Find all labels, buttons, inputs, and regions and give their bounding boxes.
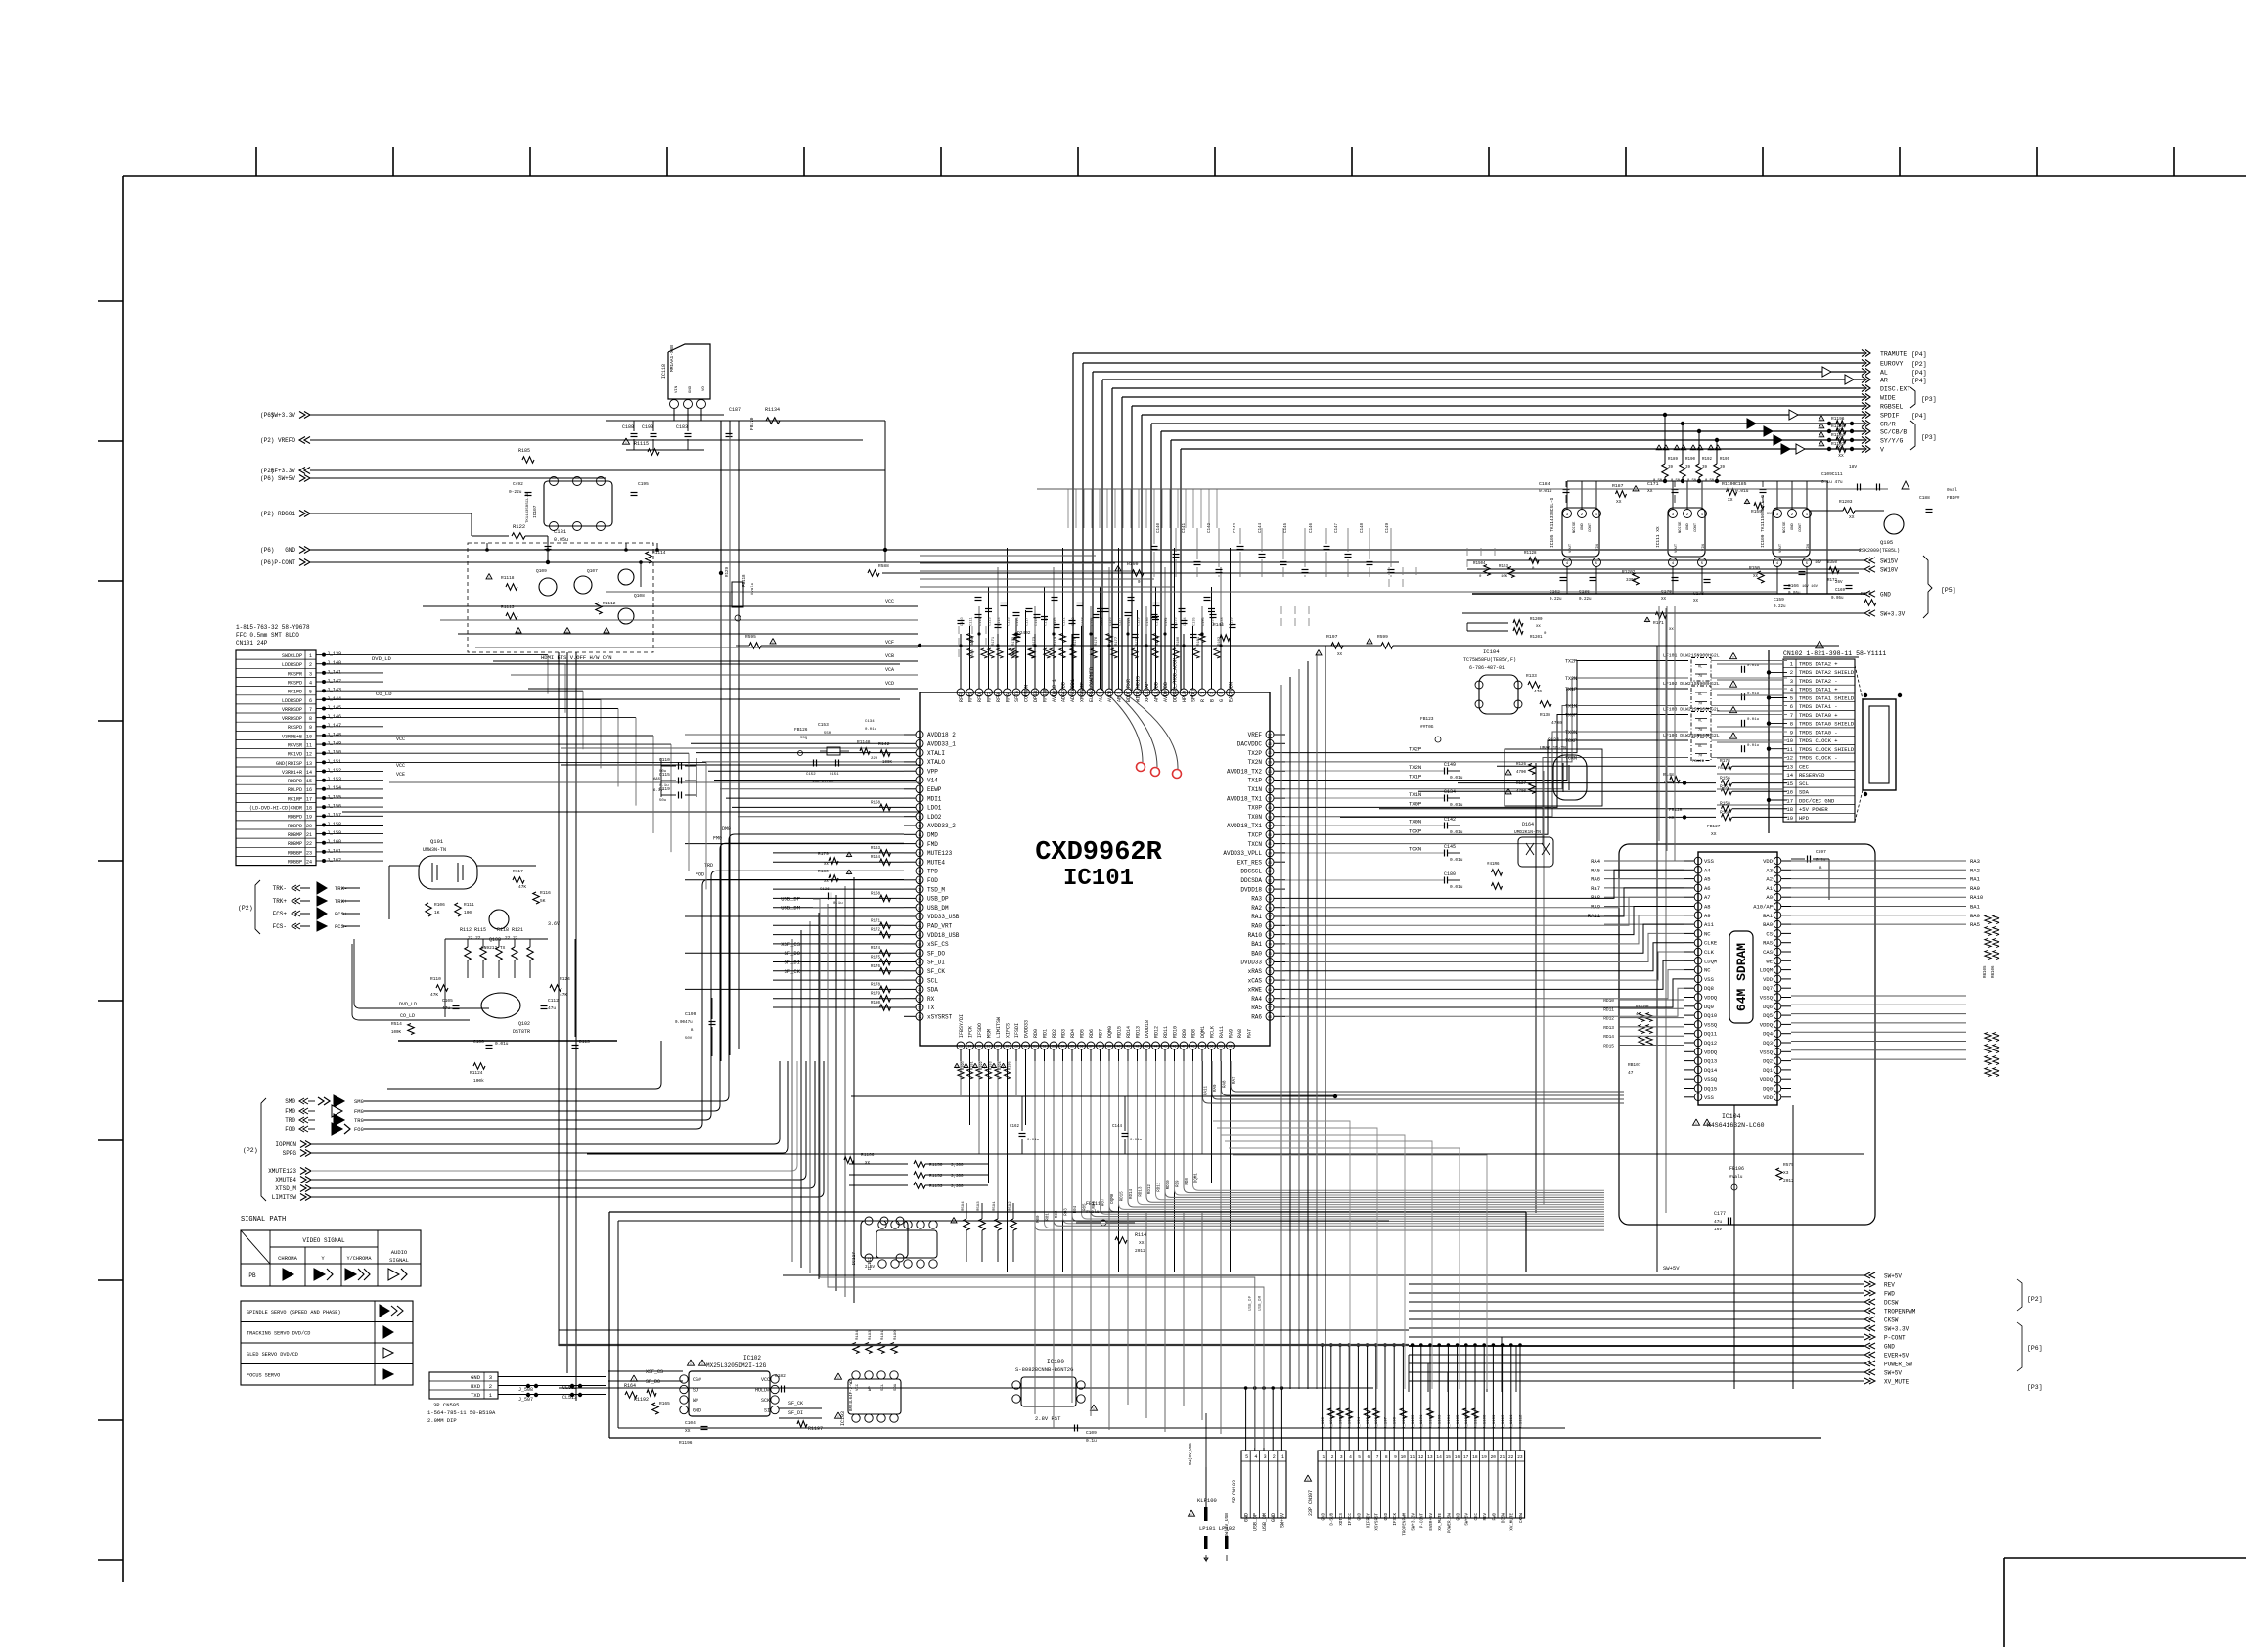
svg-text:DQ10: DQ10 bbox=[1704, 1012, 1717, 1019]
svg-text:SIGNAL: SIGNAL bbox=[389, 1257, 409, 1264]
svg-text:SF_CK: SF_CK bbox=[927, 968, 945, 975]
svg-text:RDBBP: RDBBP bbox=[288, 860, 302, 866]
svg-text:21: 21 bbox=[1500, 1454, 1505, 1460]
svg-text:!: ! bbox=[1658, 446, 1661, 452]
svg-text:R112 R115: R112 R115 bbox=[460, 927, 486, 933]
svg-text:FB118: FB118 bbox=[743, 574, 747, 587]
svg-text:VCA: VCA bbox=[885, 667, 894, 673]
svg-text:XX: XX bbox=[1728, 497, 1733, 503]
svg-text:FB127: FB127 bbox=[1707, 824, 1721, 829]
svg-text:!: ! bbox=[1307, 1477, 1310, 1483]
svg-text:RA1: RA1 bbox=[1970, 876, 1981, 883]
svg-text:R06: R06 bbox=[1093, 1201, 1097, 1209]
svg-text:RD12: RD12 bbox=[1154, 1026, 1160, 1038]
svg-text:19: 19 bbox=[1786, 815, 1793, 822]
svg-text:##T0G: ##T0G bbox=[1420, 724, 1434, 730]
svg-text:R1100: R1100 bbox=[1722, 481, 1736, 487]
svg-text:1-815-763-32 58-Y9678: 1-815-763-32 58-Y9678 bbox=[236, 624, 310, 631]
svg-text:EURAY/XAPMED: EURAY/XAPMED bbox=[1089, 667, 1095, 702]
svg-text:RA0: RA0 bbox=[1251, 923, 1262, 930]
svg-text:VDDQ: VDDQ bbox=[1760, 1021, 1774, 1028]
svg-text:26V: 26V bbox=[1835, 581, 1843, 585]
svg-text:R07: R07 bbox=[1102, 1198, 1106, 1206]
svg-text:CS: CS bbox=[1766, 930, 1773, 937]
svg-text:76: 76 bbox=[1268, 924, 1272, 928]
svg-text:89: 89 bbox=[1268, 806, 1272, 810]
svg-text:MX25L3205DM2I-12G: MX25L3205DM2I-12G bbox=[706, 1362, 767, 1369]
svg-text:VCB: VCB bbox=[885, 653, 894, 659]
svg-text:GND: GND bbox=[1458, 1513, 1461, 1521]
svg-text:31: 31 bbox=[1033, 1045, 1037, 1049]
svg-text:J_154: J_154 bbox=[327, 785, 341, 791]
svg-text:R1201: R1201 bbox=[1530, 636, 1543, 640]
svg-text:C133: C133 bbox=[1175, 617, 1179, 626]
svg-text:SPFG: SPFG bbox=[283, 1150, 297, 1157]
svg-text:TCKN: TCKN bbox=[1565, 756, 1577, 762]
svg-text:18: 18 bbox=[1786, 806, 1793, 813]
svg-text:SCK: SCK bbox=[761, 1398, 770, 1404]
svg-text:REV: REV bbox=[1484, 1513, 1488, 1521]
svg-text:DDC/CEC GND: DDC/CEC GND bbox=[1799, 797, 1835, 804]
svg-text:AVDD18_TX1: AVDD18_TX1 bbox=[1227, 823, 1262, 829]
svg-text:XX: XX bbox=[1536, 625, 1541, 629]
svg-text:R1200: R1200 bbox=[1530, 618, 1543, 622]
svg-text:47K: 47K bbox=[518, 884, 526, 890]
svg-text:R05: R05 bbox=[1084, 1203, 1088, 1211]
svg-text:2012: 2012 bbox=[1135, 1248, 1145, 1254]
svg-text:VDDQ: VDDQ bbox=[1760, 1076, 1774, 1083]
svg-text:XX: XX bbox=[824, 863, 829, 867]
svg-text:RA9: RA9 bbox=[1214, 1084, 1218, 1092]
svg-text:0.01u: 0.01u bbox=[1027, 1139, 1040, 1142]
svg-text:2SK2009(TE85L): 2SK2009(TE85L) bbox=[1859, 548, 1900, 554]
svg-text:RA10: RA10 bbox=[1248, 932, 1263, 939]
svg-text:26: 26 bbox=[987, 1045, 991, 1049]
svg-text:MUTE123: MUTE123 bbox=[927, 850, 953, 857]
svg-text:G: G bbox=[1219, 699, 1225, 702]
svg-text:TROPENPWM: TROPENPWM bbox=[1403, 1513, 1407, 1536]
svg-text:J_1110: J_1110 bbox=[1502, 1414, 1505, 1429]
svg-text:J_160: J_160 bbox=[327, 839, 341, 845]
svg-text:476: 476 bbox=[1534, 689, 1542, 694]
svg-text:50: 50 bbox=[1210, 1045, 1214, 1049]
svg-text:D2402: D2402 bbox=[1017, 630, 1031, 636]
svg-text:RA5: RA5 bbox=[1591, 867, 1600, 873]
svg-text:RD12: RD12 bbox=[1148, 1184, 1152, 1195]
svg-text:!: ! bbox=[837, 1375, 840, 1381]
svg-text:RA2: RA2 bbox=[1970, 867, 1980, 873]
svg-text:18V: 18V bbox=[1849, 464, 1857, 469]
svg-text:6.3V: 6.3V bbox=[653, 789, 663, 793]
svg-text:C135: C135 bbox=[1193, 617, 1197, 626]
svg-text:ADACVDD: ADACVDD bbox=[1061, 682, 1067, 702]
svg-text:39: 39 bbox=[1668, 466, 1674, 469]
svg-text:TX1N: TX1N bbox=[1565, 704, 1577, 710]
svg-text:RD10: RD10 bbox=[1173, 1026, 1179, 1038]
svg-text:XX: XX bbox=[1693, 600, 1699, 603]
svg-text:69: 69 bbox=[1268, 988, 1272, 992]
svg-text:RDBBP: RDBBP bbox=[288, 850, 302, 856]
svg-text:DQ3: DQ3 bbox=[1763, 1040, 1773, 1047]
svg-text:REV: REV bbox=[1884, 1282, 1895, 1289]
svg-text:(P6): (P6) bbox=[260, 559, 274, 566]
svg-text:R114: R114 bbox=[1135, 1232, 1146, 1238]
svg-text:RFINP: RFINP bbox=[1043, 688, 1049, 702]
svg-text:Ra7: Ra7 bbox=[1591, 885, 1600, 892]
svg-text:A8: A8 bbox=[1704, 904, 1711, 911]
svg-text:C195: C195 bbox=[638, 481, 649, 487]
svg-text:J_149: J_149 bbox=[327, 741, 341, 747]
svg-text:!: ! bbox=[1732, 709, 1735, 715]
svg-text:TRACKING SERVO DVD/CD: TRACKING SERVO DVD/CD bbox=[247, 1331, 310, 1337]
svg-text:SCL: SCL bbox=[1799, 781, 1809, 787]
svg-text:RD2: RD2 bbox=[1052, 1029, 1057, 1038]
svg-text:83: 83 bbox=[1268, 861, 1272, 865]
svg-text:!: ! bbox=[974, 1064, 977, 1070]
svg-text:DVDD18: DVDD18 bbox=[1145, 1020, 1150, 1038]
svg-text:CO_LD: CO_LD bbox=[376, 691, 392, 697]
svg-text:SW+5V: SW+5V bbox=[278, 475, 295, 482]
svg-text:IFSCK: IFSCK bbox=[1394, 1513, 1398, 1526]
svg-text:20: 20 bbox=[306, 824, 312, 829]
svg-text:R00: R00 bbox=[1037, 1215, 1041, 1223]
svg-text:21: 21 bbox=[918, 915, 921, 919]
svg-text:100: 100 bbox=[464, 910, 472, 915]
svg-text:RD9: RD9 bbox=[1182, 1029, 1188, 1038]
svg-text:NC: NC bbox=[1704, 930, 1711, 937]
svg-text:87: 87 bbox=[1268, 825, 1272, 828]
svg-text:0.01u: 0.01u bbox=[1450, 857, 1463, 863]
svg-text:!: ! bbox=[1635, 487, 1638, 493]
svg-text:!: ! bbox=[1002, 1064, 1005, 1070]
svg-text:R156: R156 bbox=[1720, 776, 1730, 781]
svg-text:NC: NC bbox=[1704, 967, 1711, 974]
svg-text:TRAMUTE: TRAMUTE bbox=[1880, 351, 1907, 358]
svg-text:24: 24 bbox=[306, 860, 312, 866]
svg-text:0val: 0val bbox=[1947, 487, 1957, 493]
svg-text:TMDS CLOCK SHIELD: TMDS CLOCK SHIELD bbox=[1799, 746, 1855, 753]
svg-text:HPLD: HPLD bbox=[1182, 691, 1188, 702]
svg-text:6-786-487-01: 6-786-487-01 bbox=[1469, 665, 1505, 671]
svg-text:20: 20 bbox=[918, 906, 921, 910]
svg-text:FOD: FOD bbox=[927, 877, 938, 884]
svg-text:IFSCC: IFSCC bbox=[1349, 1513, 1353, 1526]
svg-text:100K: 100K bbox=[882, 761, 893, 765]
svg-text:50u: 50u bbox=[659, 799, 667, 803]
svg-text:FCS-: FCS- bbox=[335, 923, 347, 930]
svg-text:VDD18_USB: VDD18_USB bbox=[927, 932, 960, 939]
svg-text:41: 41 bbox=[1126, 1045, 1130, 1049]
svg-text:R178: R178 bbox=[1720, 758, 1730, 764]
svg-text:2: 2 bbox=[1790, 669, 1793, 676]
svg-text:VCF: VCF bbox=[885, 640, 894, 646]
svg-text:TRK-: TRK- bbox=[273, 885, 287, 892]
svg-text:16V 16V: 16V 16V bbox=[1802, 585, 1819, 589]
svg-text:R179: R179 bbox=[818, 851, 829, 857]
svg-text:TX2P: TX2P bbox=[1248, 750, 1263, 757]
svg-text:7#: 7# bbox=[1698, 729, 1702, 733]
svg-text:R172: R172 bbox=[871, 929, 881, 933]
svg-text:LDDRSDP: LDDRSDP bbox=[282, 698, 302, 704]
svg-text:67: 67 bbox=[1268, 1006, 1272, 1010]
svg-text:TX1P: TX1P bbox=[1565, 687, 1577, 692]
svg-text:SDA: SDA bbox=[1799, 789, 1810, 796]
svg-text:RD10: RD10 bbox=[1167, 1180, 1171, 1190]
svg-text:XX: XX bbox=[824, 880, 829, 884]
svg-text:31: 31 bbox=[918, 1006, 921, 1010]
svg-text:NOISE: NOISE bbox=[1783, 521, 1787, 533]
svg-text:0.01u: 0.01u bbox=[1747, 744, 1760, 748]
svg-text:C190: C190 bbox=[642, 424, 653, 430]
svg-text:95: 95 bbox=[1210, 692, 1214, 695]
svg-text:TMDS DATA1 SHIELD: TMDS DATA1 SHIELD bbox=[1799, 695, 1855, 702]
svg-text:XX: XX bbox=[1711, 831, 1717, 837]
svg-text:VIN: VIN bbox=[675, 385, 679, 393]
svg-text:!: ! bbox=[1507, 771, 1510, 777]
svg-text:Cs92: Cs92 bbox=[513, 481, 523, 487]
svg-text:GND: GND bbox=[1323, 1513, 1326, 1521]
svg-text:!: ! bbox=[1683, 446, 1685, 452]
svg-text:P-CONT: P-CONT bbox=[1884, 1335, 1906, 1342]
svg-text:USB_DM: USB_DM bbox=[927, 905, 949, 912]
svg-text:C114: C114 bbox=[998, 617, 1002, 626]
svg-text:92: 92 bbox=[1268, 779, 1272, 782]
svg-text:RB106: RB106 bbox=[1992, 965, 1996, 978]
svg-text:TCXN: TCXN bbox=[1409, 846, 1421, 853]
svg-text:C126: C126 bbox=[1109, 617, 1113, 626]
svg-text:CONT: CONT bbox=[1589, 522, 1593, 532]
svg-text:(LD-DVD-HI-CD)CNDR: (LD-DVD-HI-CD)CNDR bbox=[249, 806, 302, 812]
svg-text:R514: R514 bbox=[391, 1021, 402, 1027]
svg-text:DQM0: DQM0 bbox=[1111, 1193, 1115, 1204]
svg-text:TX1P: TX1P bbox=[1409, 774, 1421, 781]
svg-text:V3RD1+R: V3RD1+R bbox=[282, 770, 302, 776]
svg-text:J_147: J_147 bbox=[327, 723, 341, 729]
svg-text:VDDQ: VDDQ bbox=[1704, 1049, 1718, 1055]
svg-text:J_157: J_157 bbox=[327, 813, 341, 819]
svg-text:R172: R172 bbox=[1012, 636, 1016, 646]
svg-text:XMUTE123: XMUTE123 bbox=[268, 1168, 296, 1175]
svg-text:SF_DI: SF_DI bbox=[788, 1410, 803, 1416]
svg-text:19: 19 bbox=[918, 897, 921, 901]
svg-text:18: 18 bbox=[306, 806, 312, 812]
svg-text:VSSQ: VSSQ bbox=[1760, 995, 1774, 1002]
svg-text:19: 19 bbox=[306, 815, 312, 821]
svg-text:RC1PD: RC1PD bbox=[288, 690, 302, 695]
svg-text:VSSQ: VSSQ bbox=[1704, 1021, 1718, 1028]
svg-text:VDD: VDD bbox=[1763, 976, 1774, 983]
svg-text:[P4]: [P4] bbox=[1911, 413, 1927, 420]
svg-text:CEC: CEC bbox=[1475, 1513, 1479, 1521]
svg-text:19: 19 bbox=[1481, 1454, 1487, 1460]
svg-text:RCVSR: RCVSR bbox=[288, 743, 302, 749]
svg-text:R179: R179 bbox=[871, 993, 881, 997]
svg-text:RFA: RFA bbox=[1006, 693, 1011, 702]
svg-text:A5: A5 bbox=[1704, 876, 1711, 883]
svg-text:TX0N: TX0N bbox=[1565, 730, 1577, 736]
svg-text:R129: R129 bbox=[726, 566, 730, 577]
svg-text:R138: R138 bbox=[1540, 712, 1550, 718]
svg-text:96: 96 bbox=[1219, 692, 1223, 695]
svg-text:R148: R148 bbox=[1663, 772, 1674, 778]
svg-text:11: 11 bbox=[1410, 1454, 1415, 1460]
svg-text:R174: R174 bbox=[1054, 636, 1057, 646]
svg-text:26: 26 bbox=[918, 960, 921, 964]
svg-text:TX0N: TX0N bbox=[1248, 814, 1263, 821]
svg-text:1K: 1K bbox=[434, 910, 440, 915]
svg-text:XX: XX bbox=[1661, 598, 1667, 602]
svg-text:A&5: A&5 bbox=[653, 778, 661, 781]
svg-text:TMDS DATA2 +: TMDS DATA2 + bbox=[1799, 661, 1838, 668]
svg-text:NOISE: NOISE bbox=[1679, 521, 1683, 533]
svg-text:4: 4 bbox=[919, 761, 921, 765]
svg-text:C180: C180 bbox=[1444, 871, 1456, 877]
svg-text:AVDD18_TX1: AVDD18_TX1 bbox=[1227, 795, 1262, 802]
svg-text:TROPENPWM: TROPENPWM bbox=[1884, 1309, 1916, 1316]
svg-text:RC1VD: RC1VD bbox=[288, 752, 302, 758]
svg-text:0.0047u: 0.0047u bbox=[675, 1021, 693, 1025]
svg-text:IFBSY/DI: IFBSY/DI bbox=[959, 1014, 965, 1038]
svg-text:C119: C119 bbox=[1045, 617, 1049, 626]
svg-text:VCC: VCC bbox=[885, 599, 894, 604]
svg-text:R117: R117 bbox=[513, 869, 523, 874]
svg-text:VSS: VSS bbox=[1704, 1094, 1715, 1101]
svg-text:#L: #L bbox=[1698, 745, 1702, 749]
svg-text:5: 5 bbox=[919, 770, 921, 774]
svg-text:!: ! bbox=[1665, 446, 1668, 452]
svg-text:14: 14 bbox=[1436, 1454, 1442, 1460]
svg-text:J_508: J_508 bbox=[518, 1387, 533, 1393]
svg-text:2012: 2012 bbox=[1783, 1178, 1794, 1183]
svg-text:SF_DO: SF_DO bbox=[646, 1379, 660, 1385]
svg-text:R594: R594 bbox=[962, 1201, 966, 1211]
svg-text:3.6V: 3.6V bbox=[548, 921, 560, 927]
svg-text:FB106: FB106 bbox=[1729, 1166, 1744, 1172]
svg-text:C127: C127 bbox=[1119, 617, 1123, 626]
svg-text:5: 5 bbox=[1358, 1454, 1361, 1460]
svg-text:GND(RDISP: GND(RDISP bbox=[276, 761, 302, 767]
svg-text:12: 12 bbox=[1418, 1454, 1424, 1460]
svg-text:R599: R599 bbox=[1377, 634, 1388, 640]
svg-text:VDD33_USB: VDD33_USB bbox=[927, 914, 960, 920]
svg-text:UMD2K1N-TN: UMD2K1N-TN bbox=[1514, 829, 1541, 835]
svg-text:C122: C122 bbox=[1072, 617, 1076, 626]
svg-text:R1193: R1193 bbox=[1831, 441, 1845, 447]
svg-text:7#: 7# bbox=[1698, 703, 1702, 707]
svg-text:DQ12: DQ12 bbox=[1704, 1040, 1717, 1047]
svg-text:8: 8 bbox=[309, 716, 312, 722]
svg-text:IC104: IC104 bbox=[1483, 648, 1500, 655]
svg-text:Q107: Q107 bbox=[587, 568, 598, 574]
svg-text:RA5: RA5 bbox=[1251, 1005, 1262, 1011]
svg-text:TX1N: TX1N bbox=[1409, 791, 1421, 798]
svg-text:C153: C153 bbox=[818, 722, 829, 728]
svg-text:TCKP: TCKP bbox=[1565, 738, 1577, 744]
svg-text:J_142: J_142 bbox=[327, 679, 341, 685]
svg-text:R588: R588 bbox=[878, 563, 889, 569]
svg-text:VIDEO SIGNAL: VIDEO SIGNAL bbox=[302, 1237, 345, 1244]
svg-text:XTALI: XTALI bbox=[927, 750, 945, 757]
svg-text:TX: TX bbox=[927, 1005, 935, 1011]
svg-text:47u: 47u bbox=[1714, 1219, 1722, 1225]
svg-text:GND: GND bbox=[1880, 592, 1891, 599]
svg-text:XPLLCAP: XPLLCAP bbox=[1145, 682, 1150, 702]
svg-text:C188: C188 bbox=[622, 424, 634, 430]
svg-text:AR: AR bbox=[1880, 378, 1888, 384]
svg-text:R157: R157 bbox=[1720, 783, 1730, 789]
svg-text:R181: R181 bbox=[1197, 636, 1201, 646]
svg-text:22: 22 bbox=[1508, 1454, 1514, 1460]
svg-text:R1196: R1196 bbox=[679, 1440, 693, 1446]
svg-text:SW+3.3V: SW+3.3V bbox=[1884, 1326, 1909, 1333]
svg-text:0-22u: 0-22u bbox=[509, 489, 522, 495]
svg-text:J_150: J_150 bbox=[327, 750, 341, 756]
svg-text:SW+3.3V: SW+3.3V bbox=[1413, 1513, 1416, 1531]
svg-text:17: 17 bbox=[1786, 797, 1793, 804]
svg-text:2: 2 bbox=[309, 662, 312, 668]
svg-text:xSYSRST: xSYSRST bbox=[927, 1014, 953, 1021]
svg-text:TMDS CLOCK -: TMDS CLOCK - bbox=[1799, 755, 1838, 762]
svg-text:BA1: BA1 bbox=[1970, 904, 1981, 911]
svg-text:C149: C149 bbox=[1386, 522, 1390, 533]
svg-text:DCSW: DCSW bbox=[1503, 1513, 1506, 1524]
svg-text:6: 6 bbox=[309, 698, 312, 704]
svg-text:Q101: Q101 bbox=[430, 838, 444, 845]
svg-text:[P3]: [P3] bbox=[2027, 1384, 2043, 1391]
svg-text:11: 11 bbox=[918, 825, 921, 828]
svg-text:B350: B350 bbox=[1827, 561, 1838, 565]
svg-text:16: 16 bbox=[918, 870, 921, 873]
svg-text:550: 550 bbox=[824, 732, 831, 736]
svg-text:5P CN103: 5P CN103 bbox=[1232, 1480, 1237, 1503]
svg-text:1: 1 bbox=[1281, 1454, 1284, 1460]
svg-text:7: 7 bbox=[309, 707, 312, 713]
svg-text:DQ11: DQ11 bbox=[1704, 1031, 1718, 1038]
svg-text:TMDS DATA2 SHIELD: TMDS DATA2 SHIELD bbox=[1799, 669, 1855, 676]
svg-text:2: 2 bbox=[1273, 1454, 1276, 1460]
svg-text:SDA: SDA bbox=[894, 1383, 898, 1391]
svg-text:16: 16 bbox=[1455, 1454, 1460, 1460]
svg-text:3300: 3300 bbox=[1626, 579, 1637, 583]
svg-text:USB_DP: USB_DP bbox=[1249, 1295, 1253, 1311]
svg-text:!: ! bbox=[1706, 1121, 1709, 1127]
svg-text:SW+5V: SW+5V bbox=[1280, 1513, 1285, 1528]
svg-text:SC/CB/B: SC/CB/B bbox=[1880, 429, 1907, 436]
svg-text:45: 45 bbox=[1163, 1045, 1167, 1049]
svg-text:96: 96 bbox=[1268, 742, 1272, 746]
svg-text:J_146: J_146 bbox=[327, 714, 341, 720]
svg-text:SW(8V_USB: SW(8V_USB bbox=[1189, 1443, 1193, 1465]
svg-text:RD14: RD14 bbox=[1603, 1034, 1614, 1040]
svg-text:XV_MUTE: XV_MUTE bbox=[1884, 1379, 1909, 1386]
svg-text:7: 7 bbox=[919, 787, 921, 791]
svg-text:AVDD33_1: AVDD33_1 bbox=[927, 741, 956, 748]
svg-text:3: 3 bbox=[1790, 678, 1793, 685]
svg-text:XX: XX bbox=[1838, 453, 1844, 459]
svg-text:FOD: FOD bbox=[696, 872, 704, 878]
svg-text:7#: 7# bbox=[1698, 675, 1702, 679]
svg-text:A6: A6 bbox=[1704, 885, 1711, 892]
svg-text:FOCUS SERVO: FOCUS SERVO bbox=[247, 1373, 280, 1379]
svg-text:78: 78 bbox=[1268, 906, 1272, 910]
svg-text:71: 71 bbox=[1268, 969, 1272, 973]
svg-text:22 22: 22 22 bbox=[505, 935, 518, 941]
svg-text:J_151: J_151 bbox=[327, 759, 341, 765]
svg-text:77: 77 bbox=[1268, 915, 1272, 919]
svg-text:C112: C112 bbox=[979, 617, 983, 626]
svg-text:R591: R591 bbox=[993, 1201, 997, 1211]
svg-text:USB_DM: USB_DM bbox=[1262, 1513, 1268, 1531]
